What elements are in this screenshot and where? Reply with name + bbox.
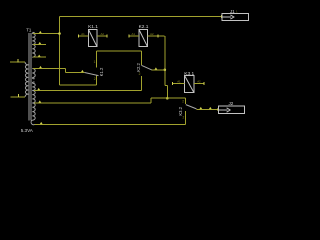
svg-text:K1.1: K1.1 (88, 24, 98, 30)
svg-text:K3.1: K3.1 (184, 71, 194, 77)
svg-text:T1: T1 (26, 27, 32, 32)
svg-text:A1: A1 (81, 32, 85, 36)
svg-text:A2: A2 (100, 32, 104, 36)
svg-text:K1.2: K1.2 (99, 67, 104, 76)
svg-text:2: 2 (182, 100, 184, 104)
svg-text:K2.2: K2.2 (136, 63, 141, 72)
svg-text:K3.2: K3.2 (178, 106, 183, 115)
svg-text:A1: A1 (131, 32, 135, 36)
svg-text:A1: A1 (177, 80, 181, 84)
svg-text:J2: J2 (228, 101, 233, 106)
svg-text:1: 1 (94, 60, 96, 64)
svg-text:J1: J1 (230, 9, 235, 14)
svg-text:5.3VA: 5.3VA (21, 128, 34, 133)
svg-text:2: 2 (94, 77, 96, 81)
svg-text:A2: A2 (150, 32, 154, 36)
svg-text:K2.1: K2.1 (139, 24, 149, 30)
svg-text:A2: A2 (197, 80, 201, 84)
